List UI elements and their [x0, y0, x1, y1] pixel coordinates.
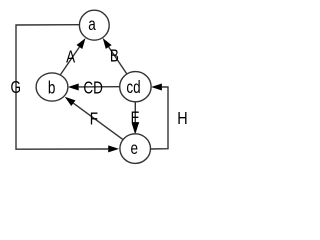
label H [177, 108, 187, 128]
svg-text:F: F [90, 110, 98, 129]
svg-text:cd: cd [126, 78, 140, 97]
svg-text:B: B [110, 47, 119, 66]
svg-text:a: a [88, 15, 96, 34]
svg-text:H: H [177, 108, 187, 128]
label B [110, 47, 119, 66]
label F [90, 110, 98, 129]
label CD [83, 79, 102, 98]
node cd [120, 72, 151, 102]
label A [66, 48, 75, 67]
node b [36, 73, 68, 101]
svg-text:G: G [10, 78, 21, 97]
wire: edge E cd->e [132, 102, 139, 135]
wire: edge CD cd->b [68, 84, 120, 91]
svg-text:CD: CD [83, 79, 102, 98]
wire: edge G path a->e (left route) [16, 25, 119, 153]
wire: edge B cd->a [103, 38, 127, 74]
wire: edge F e->b [65, 97, 123, 140]
node e [120, 134, 151, 164]
label E [131, 109, 140, 128]
wire: edge H e->cd (right route) [150, 84, 168, 150]
wire: edge A b->a [60, 38, 85, 75]
svg-text:E: E [131, 109, 140, 128]
svg-text:A: A [66, 48, 75, 67]
svg-text:e: e [130, 139, 138, 158]
label G [10, 78, 21, 97]
svg-text:b: b [48, 79, 56, 98]
node a [79, 10, 109, 40]
